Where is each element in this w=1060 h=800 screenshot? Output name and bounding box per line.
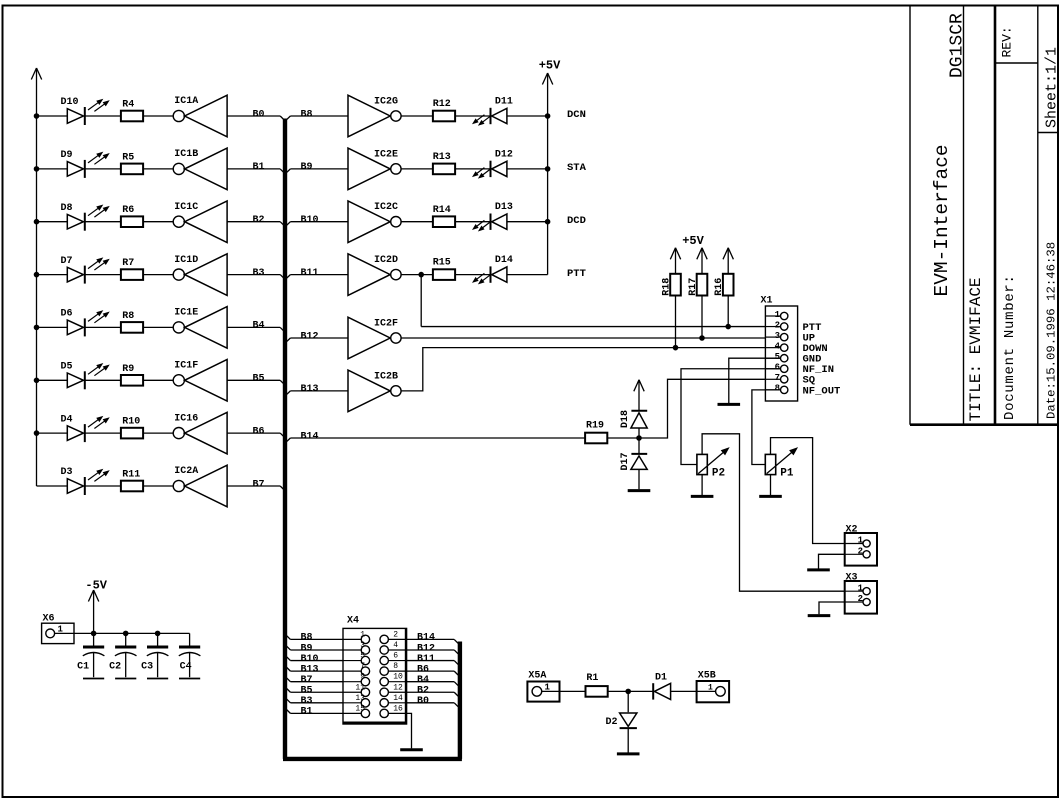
title block left border (909, 6, 911, 425)
svg-text:D11: D11 (495, 97, 513, 108)
inverter IC1D (173, 254, 227, 296)
inverter IC1C (173, 201, 227, 243)
junction dot rail row 2 (34, 167, 39, 172)
svg-text:X1: X1 (761, 296, 773, 307)
wire R4 to IC1A (143, 115, 173, 117)
wire R12 to D11 (455, 115, 490, 117)
svg-text:B3: B3 (301, 696, 313, 707)
svg-text:D18: D18 (620, 410, 631, 428)
svg-text:IC2G: IC2G (374, 97, 398, 108)
+5V power rail vertical (547, 73, 549, 275)
LED D14 (473, 266, 507, 283)
svg-text:R10: R10 (122, 417, 140, 428)
wire bus to IC2B (290, 390, 348, 392)
inverter IC2G (348, 95, 401, 137)
connector X6 (42, 623, 74, 643)
svg-text:P2: P2 (712, 468, 725, 480)
wire PTT to X1 pin2 (421, 326, 781, 328)
svg-text:D8: D8 (61, 203, 73, 214)
svg-text:8: 8 (775, 384, 780, 394)
potentiometer P2 (697, 448, 729, 475)
bus exit B12 (286, 338, 290, 342)
bus entry B5 (280, 380, 284, 384)
wire node to SQ corner (639, 379, 781, 438)
svg-text:B14: B14 (301, 431, 319, 442)
wire IC1D to bus net B3 (227, 274, 280, 276)
svg-text:R14: R14 (433, 205, 451, 216)
X4 pin 2 stub (380, 635, 407, 643)
X4 pin 15 stub (343, 709, 370, 717)
connector X4 body (343, 628, 407, 724)
svg-text:R19: R19 (586, 420, 604, 431)
ground C3 (147, 678, 168, 680)
svg-text:R12: R12 (433, 99, 451, 110)
svg-text:IC1E: IC1E (174, 308, 198, 319)
wire R5 to IC1B (143, 168, 173, 170)
wire IC2G to R12 (401, 115, 433, 117)
title block Sheet box bottom line (1038, 132, 1058, 134)
bus exit B9 (286, 169, 290, 173)
wire rail to D9 (37, 168, 68, 170)
X4 pin 12 stub (380, 688, 407, 696)
inverter IC1E (173, 307, 227, 349)
svg-text:4: 4 (393, 641, 398, 650)
+5V arrow (542, 73, 547, 85)
junction dot rail row 5 (34, 325, 39, 330)
svg-text:3: 3 (360, 641, 365, 650)
bus right vertical (458, 642, 462, 759)
wire IC1B to bus net B1 (227, 168, 280, 170)
wire IC1A to bus net B0 (227, 115, 280, 117)
connector X3 (845, 581, 877, 614)
resistor R1 (586, 686, 608, 697)
wire D6 to R8 (85, 326, 121, 328)
X4 pin 8 stub (380, 667, 407, 675)
svg-text:3: 3 (775, 331, 780, 341)
ground C2 (115, 678, 136, 680)
capacitor C3 (147, 633, 169, 677)
wire IC1C to bus net B2 (227, 221, 280, 223)
bus exit B10 (286, 222, 290, 226)
inverter IC2C (348, 201, 401, 243)
wire X4 pin 10 to bus (B4) (407, 682, 459, 686)
svg-text:R16: R16 (714, 278, 725, 296)
wire bus to X4 pin 3 (B9) (286, 646, 343, 650)
wire D11 to +5V rail (507, 115, 548, 117)
bus exit B11 (286, 275, 290, 279)
wire R18 down (675, 296, 677, 348)
junction dot +5V rail row 3 (545, 219, 550, 224)
wire P2 top to X3 pin1 (702, 434, 845, 591)
svg-text:1: 1 (858, 583, 864, 593)
svg-text:1: 1 (708, 683, 713, 692)
potentiometer P1 (765, 448, 797, 475)
junction dot R16-PTT (726, 324, 731, 329)
inverter IC16 (173, 412, 227, 454)
svg-text:C2: C2 (109, 662, 121, 673)
wire bus to IC2D (290, 274, 348, 276)
svg-text:DCN: DCN (567, 109, 586, 121)
svg-text:6: 6 (775, 363, 780, 373)
inverter IC2B (348, 370, 401, 412)
resistor R12 (433, 111, 455, 122)
wire R6 to IC1C (143, 221, 173, 223)
svg-text:2: 2 (858, 594, 863, 604)
wire bus to X4 pin 15 (B1) (286, 709, 343, 713)
svg-text:12: 12 (393, 683, 403, 692)
svg-text:1: 1 (858, 536, 864, 546)
svg-text:IC2D: IC2D (374, 255, 398, 266)
ground C1 (83, 678, 104, 680)
wire bus to X4 pin 1 (B8) (286, 635, 343, 639)
svg-text:B8: B8 (301, 633, 313, 644)
wire D9 to R5 (85, 168, 121, 170)
wire D8 to R6 (85, 221, 121, 223)
wire R1 to node (608, 690, 629, 692)
wire D1 to X5B (671, 690, 697, 692)
wire R11 to IC2A (143, 485, 173, 487)
wire R14 to D13 (455, 221, 490, 223)
svg-text:7: 7 (775, 373, 780, 383)
X4 pin 1 stub (343, 635, 370, 643)
junction dot R1-D1-D2 node (626, 689, 631, 694)
LED D8 (67, 205, 108, 230)
svg-text:8: 8 (393, 662, 398, 671)
bus exit B14 (286, 438, 290, 442)
svg-text:X3: X3 (846, 573, 858, 584)
wire bus to X4 pin 13 (B3) (286, 699, 343, 703)
wire X3 pin2 to ground (819, 602, 845, 614)
wire X4 pin 16 to ground (407, 713, 412, 748)
wire bus to IC2G (290, 115, 348, 117)
resistor R13 (433, 164, 455, 175)
capacitor C4 (179, 633, 201, 677)
wire rail to D3 (37, 485, 68, 487)
svg-text:B5: B5 (253, 374, 265, 385)
wire IC2E to R13 (401, 168, 433, 170)
title block divider x963 (963, 6, 965, 425)
power arrow above D18 (634, 380, 644, 411)
wire R15 to D14 (455, 274, 490, 276)
wire X1 pin6 NF_IN to P2 (681, 369, 781, 465)
ground below D17 (628, 489, 651, 492)
wire R9 to IC1F (143, 379, 173, 381)
svg-text:IC1F: IC1F (174, 361, 198, 372)
wire X4 pin 12 to bus (B2) (407, 692, 459, 696)
svg-text:D1: D1 (655, 672, 667, 683)
svg-text:X2: X2 (846, 525, 858, 536)
wire IC1E to bus net B4 (227, 326, 280, 328)
wire rail to D6 (37, 326, 68, 328)
svg-text:REV:: REV: (1000, 26, 1015, 57)
wire R16 down (727, 296, 729, 327)
wire IC2F to X1 pin3 (UP) (401, 337, 781, 339)
wire PTT vertical from IC2D (420, 275, 422, 327)
inverter IC1F (173, 360, 227, 402)
svg-text:B9: B9 (301, 162, 313, 173)
power arrow above R17 (697, 248, 707, 274)
inverter IC2A (173, 465, 227, 507)
svg-text:R13: R13 (433, 152, 451, 163)
resistor R9 (121, 375, 143, 386)
resistor R8 (121, 322, 143, 333)
svg-text:C4: C4 (180, 662, 192, 673)
X4 pin 11 stub (343, 688, 370, 696)
wire D3 to R11 (85, 485, 121, 487)
svg-text:B5: B5 (301, 686, 313, 697)
svg-text:7: 7 (360, 662, 365, 671)
svg-text:B7: B7 (253, 479, 265, 490)
svg-text:IC2C: IC2C (374, 202, 398, 213)
svg-text:6: 6 (393, 652, 398, 661)
svg-text:EVM-Interface: EVM-Interface (931, 144, 953, 296)
svg-text:B3: B3 (253, 268, 265, 279)
svg-text:IC1C: IC1C (174, 202, 198, 213)
wire bus to X4 pin 9 (B7) (286, 678, 343, 682)
svg-text:D4: D4 (61, 414, 73, 425)
resistor R17 (697, 274, 708, 296)
svg-text:B12: B12 (301, 331, 319, 342)
X4 pin 13 stub (343, 699, 370, 707)
resistor R14 (433, 216, 455, 227)
ground D2 (617, 752, 640, 755)
bus entry B7 (280, 486, 284, 490)
LED D11 (473, 108, 507, 125)
svg-text:Date:15.09.1996 12:46:38: Date:15.09.1996 12:46:38 (1045, 242, 1059, 419)
svg-text:STA: STA (567, 162, 587, 174)
diode D1 (653, 683, 670, 699)
svg-text:1: 1 (545, 683, 551, 693)
LED D4 (67, 417, 108, 442)
svg-text:B11: B11 (301, 268, 319, 279)
bus entry B0 (280, 116, 284, 120)
svg-text:C3: C3 (141, 662, 153, 673)
svg-text:B6: B6 (417, 664, 429, 675)
junction dot +5V rail row 1 (545, 114, 550, 119)
svg-text:D13: D13 (495, 202, 513, 213)
svg-text:R11: R11 (122, 470, 140, 481)
resistor R6 (121, 216, 143, 227)
wire P1 bottom (770, 475, 772, 495)
wire bus to X4 pin 5 (B10) (286, 657, 343, 661)
svg-text:IC1B: IC1B (174, 149, 198, 160)
X4 pin 4 stub (380, 646, 407, 654)
svg-text:16: 16 (393, 704, 403, 713)
svg-text:4: 4 (775, 341, 781, 351)
junction dot R18-DOWN (673, 345, 678, 350)
svg-text:D6: D6 (61, 309, 73, 320)
svg-text:R9: R9 (122, 364, 134, 375)
wire R7 to IC1D (143, 274, 173, 276)
junction dot IC2D output (419, 272, 424, 277)
svg-text:B8: B8 (301, 109, 313, 120)
svg-text:IC16: IC16 (174, 413, 198, 424)
wire X2 pin2 to ground (819, 554, 845, 568)
svg-text:R15: R15 (433, 258, 451, 269)
X4 pin 7 stub (343, 667, 370, 675)
wire IC2B to X1 pin4 (DOWN) (401, 348, 781, 391)
junction dot C2 (123, 631, 128, 636)
svg-text:D7: D7 (61, 256, 73, 267)
svg-text:DCD: DCD (567, 215, 586, 227)
ground C4 (179, 678, 200, 680)
wire P1 top to X2 pin1 (771, 438, 845, 544)
svg-text:X4: X4 (347, 616, 359, 627)
wire D10 to R4 (85, 115, 121, 117)
resistor R19 (585, 433, 607, 444)
svg-text:TITLE: EVMIFACE: TITLE: EVMIFACE (967, 277, 985, 421)
svg-text:PTT: PTT (567, 268, 586, 280)
wire IC2D to R15 (401, 274, 433, 276)
wire X4 pin 14 to bus (B0) (407, 703, 459, 707)
resistor R10 (121, 428, 143, 439)
svg-text:Sheet:1/1: Sheet:1/1 (1044, 47, 1060, 128)
svg-text:R8: R8 (122, 311, 134, 322)
junction dot rail row 1 (34, 114, 39, 119)
capacitor C1 (83, 633, 105, 677)
svg-text:B2: B2 (417, 686, 429, 697)
svg-text:D10: D10 (61, 97, 79, 108)
X4 pin 16 stub (380, 709, 407, 717)
svg-text:5: 5 (360, 652, 365, 661)
svg-text:10: 10 (393, 673, 403, 682)
resistor R7 (121, 269, 143, 280)
X4 pin 3 stub (343, 646, 370, 654)
connector X5B (697, 681, 730, 702)
junction dot R17-UP (700, 336, 705, 341)
svg-text:R7: R7 (122, 258, 134, 269)
wire R10 to IC16 (143, 432, 173, 434)
X4 pin 5 stub (343, 656, 370, 664)
junction dot +5V rail row 2 (545, 167, 550, 172)
wire IC2A to bus net B7 (227, 485, 280, 487)
svg-text:B1: B1 (253, 162, 265, 173)
connector X1 (765, 306, 797, 401)
svg-text:R18: R18 (661, 278, 672, 296)
connector X5A (527, 682, 559, 702)
wire X4 pin 4 to bus (B12) (407, 650, 459, 654)
svg-text:D12: D12 (495, 149, 513, 160)
svg-text:D17: D17 (620, 452, 631, 470)
capacitor C2 (115, 633, 137, 677)
svg-text:D14: D14 (495, 255, 513, 266)
resistor R16 (723, 274, 734, 296)
wire D14 to +5V rail (507, 274, 548, 276)
wire bus to R19 (290, 437, 585, 439)
svg-text:B14: B14 (417, 633, 435, 644)
inverter IC2F (348, 317, 401, 359)
svg-text:B13: B13 (301, 664, 319, 675)
ground P1 (759, 495, 782, 498)
title block bottom border (910, 423, 1058, 426)
svg-text:9: 9 (360, 673, 365, 682)
bus exit B8 (286, 116, 290, 120)
svg-text:B13: B13 (301, 384, 319, 395)
-5V power arrow (88, 590, 98, 633)
ground P2 (691, 495, 714, 498)
svg-text:2: 2 (775, 320, 780, 330)
wire bus to IC2C (290, 221, 348, 223)
wire rail to D8 (37, 221, 68, 223)
resistor R5 (121, 164, 143, 175)
power arrow above R18 (670, 248, 680, 274)
svg-text:R6: R6 (122, 205, 134, 216)
svg-text:IC2B: IC2B (374, 371, 398, 382)
inverter IC2E (348, 148, 401, 190)
X4 pin 9 stub (343, 677, 370, 685)
svg-text:D3: D3 (61, 467, 73, 478)
LED D7 (67, 258, 108, 283)
title block divider x1038 (1037, 6, 1039, 425)
wire node to D2 (627, 691, 629, 712)
bus bottom horizontal (283, 757, 462, 761)
title block thick divider x995 (994, 6, 997, 425)
wire X1 pin5 GND (729, 358, 781, 403)
svg-text:2: 2 (858, 547, 863, 557)
wire D7 to R7 (85, 274, 121, 276)
wire bus to IC2F (290, 337, 348, 339)
LED D3 (67, 470, 108, 495)
svg-text:B4: B4 (253, 321, 265, 332)
svg-text:NF_OUT: NF_OUT (803, 385, 841, 397)
svg-text:IC1D: IC1D (174, 255, 198, 266)
LED D10 (67, 100, 108, 125)
resistor R18 (670, 274, 681, 296)
connector X2 (845, 533, 877, 566)
svg-text:1: 1 (360, 630, 365, 639)
svg-text:R5: R5 (122, 152, 134, 163)
svg-text:R4: R4 (122, 100, 134, 111)
svg-text:14: 14 (393, 694, 403, 703)
wire X4 pin 2 to bus (B14) (407, 639, 459, 643)
wire bus to X4 pin 7 (B13) (286, 667, 343, 671)
X4 pin 10 stub (380, 677, 407, 685)
svg-text:1: 1 (775, 310, 781, 320)
wire IC16 to bus net B6 (227, 432, 280, 434)
svg-text:B10: B10 (301, 654, 319, 665)
resistor R4 (121, 111, 143, 122)
svg-text:+5V: +5V (682, 234, 704, 248)
X4 pin 14 stub (380, 699, 407, 707)
bus main vertical (283, 119, 287, 759)
LED D12 (473, 161, 507, 178)
wire rail to D10 (37, 115, 68, 117)
ground X2 (807, 568, 830, 571)
bus entry B6 (280, 433, 284, 437)
wire D5 to R9 (85, 379, 121, 381)
X4 pin 6 stub (380, 656, 407, 664)
svg-text:X5B: X5B (698, 671, 716, 682)
wire rail to D7 (37, 274, 68, 276)
inverter IC1B (173, 148, 227, 190)
svg-text:1: 1 (58, 625, 64, 635)
wire P2 bottom (701, 475, 703, 495)
wire rail to D5 (37, 379, 68, 381)
LED D13 (473, 214, 507, 231)
wire R17 down (701, 296, 703, 338)
LED D9 (67, 153, 108, 178)
power arrow above R16 (723, 248, 733, 274)
svg-text:D5: D5 (61, 362, 73, 373)
wire X1 pin8 NF_OUT to P1 (752, 390, 781, 465)
bus entry B4 (280, 327, 284, 331)
diode D2 (620, 713, 637, 753)
svg-text:B0: B0 (417, 696, 429, 707)
ground X3 (808, 614, 831, 617)
wire D13 to +5V rail (507, 221, 548, 223)
junction dot C3 (155, 631, 160, 636)
inverter IC2D (348, 254, 401, 296)
